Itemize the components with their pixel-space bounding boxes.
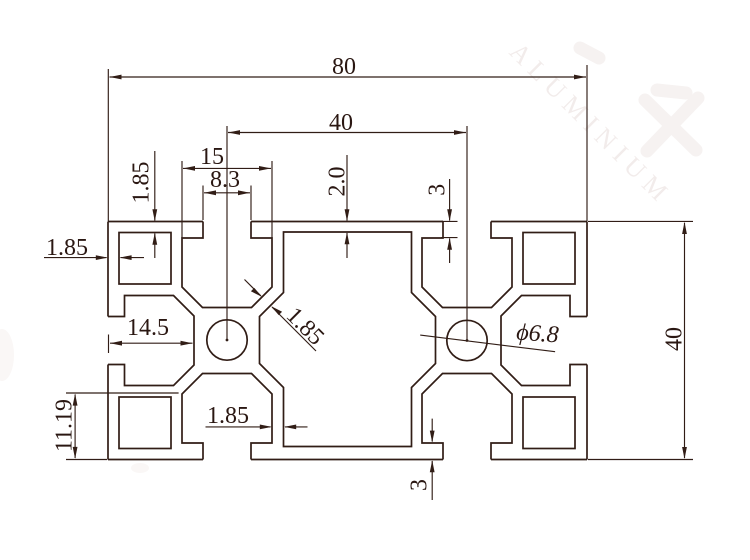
bottom slot right section <box>422 374 512 460</box>
dim 8.3 line <box>204 192 250 194</box>
2.0 down / up <box>345 209 350 221</box>
dim 15 extension lines <box>182 161 272 238</box>
dim 14.5 line <box>110 342 193 344</box>
corner cavity square TR <box>523 233 575 285</box>
bottom slot left section <box>182 374 272 460</box>
svg-text:40: 40 <box>662 327 688 351</box>
outer right edge segments <box>586 222 588 460</box>
svg-text:1.85: 1.85 <box>207 403 249 429</box>
80 left / right <box>110 75 122 80</box>
dim 40 right extension lines <box>588 221 693 459</box>
svg-text:80: 80 <box>332 54 356 80</box>
dim 11.19 extension lines <box>66 393 179 460</box>
profile outline <box>108 222 587 460</box>
dim phi6.8 leader <box>420 335 555 352</box>
outer left edge segments <box>107 222 109 460</box>
dimensions <box>44 65 693 500</box>
watermark <box>0 37 698 473</box>
1.85 top-left down / up <box>152 209 157 221</box>
center dots <box>226 339 229 342</box>
svg-text:ϕ6.8: ϕ6.8 <box>515 320 559 349</box>
dim 1.85 bottom leader <box>206 426 308 428</box>
3 bottom down / up <box>430 431 435 443</box>
svg-text:3: 3 <box>425 184 451 196</box>
dim 3 bottom segments <box>431 419 433 500</box>
corner cavity square BL <box>119 397 171 449</box>
dim 1.85 top-left segments <box>154 151 156 258</box>
dim 8.3 extension lines <box>203 186 251 221</box>
3 top down / up <box>447 209 452 221</box>
svg-text:40: 40 <box>329 110 353 136</box>
dim 15 line <box>183 167 271 169</box>
middle cavity <box>260 232 436 447</box>
svg-text:11.19: 11.19 <box>52 399 78 452</box>
arrowheads <box>73 75 687 473</box>
outer bottom edge segments <box>108 459 587 461</box>
left core hole <box>207 320 247 360</box>
corner cavity square BR <box>523 397 575 449</box>
dim 1.85 diagonal leader <box>245 280 317 352</box>
dim 3 top segments and stubs <box>441 179 457 263</box>
dim 80 extension lines <box>108 65 587 221</box>
right core hole <box>447 320 487 360</box>
11.19 up / down <box>73 394 78 406</box>
1.85 diagonal SE / NW <box>251 288 262 297</box>
outer top edge segments <box>108 221 587 223</box>
dim 40 top line <box>228 132 466 134</box>
top slot right section <box>422 222 512 308</box>
left side slot <box>108 296 194 386</box>
40 top left / right <box>228 130 240 135</box>
15 <box>183 166 195 171</box>
1.85 bottom pair <box>260 425 272 430</box>
right side slot <box>501 296 587 386</box>
dim 40 right line <box>684 223 686 458</box>
dim 11.19 line <box>74 395 76 459</box>
40 right up / down <box>682 222 687 234</box>
svg-text:2.0: 2.0 <box>325 167 351 197</box>
svg-text:1.85: 1.85 <box>46 235 88 261</box>
svg-text:1.85: 1.85 <box>129 162 155 204</box>
svg-text:3: 3 <box>407 479 433 491</box>
dimension texts <box>46 54 688 491</box>
8.3 <box>204 190 216 195</box>
1.85 left pair <box>96 255 108 260</box>
svg-text:14.5: 14.5 <box>127 315 169 341</box>
dim 14.5 extension stub <box>108 335 110 354</box>
dim 2.0 segments <box>346 155 348 258</box>
top slot left section <box>182 222 272 308</box>
svg-text:8.3: 8.3 <box>210 167 240 193</box>
dim 80 line <box>110 76 587 78</box>
corner cavity square TL <box>119 233 171 285</box>
dim 40 top extension lines into circle centers <box>227 126 467 340</box>
dim 1.85 left leader <box>44 257 144 259</box>
14.5 left / right <box>110 341 122 346</box>
